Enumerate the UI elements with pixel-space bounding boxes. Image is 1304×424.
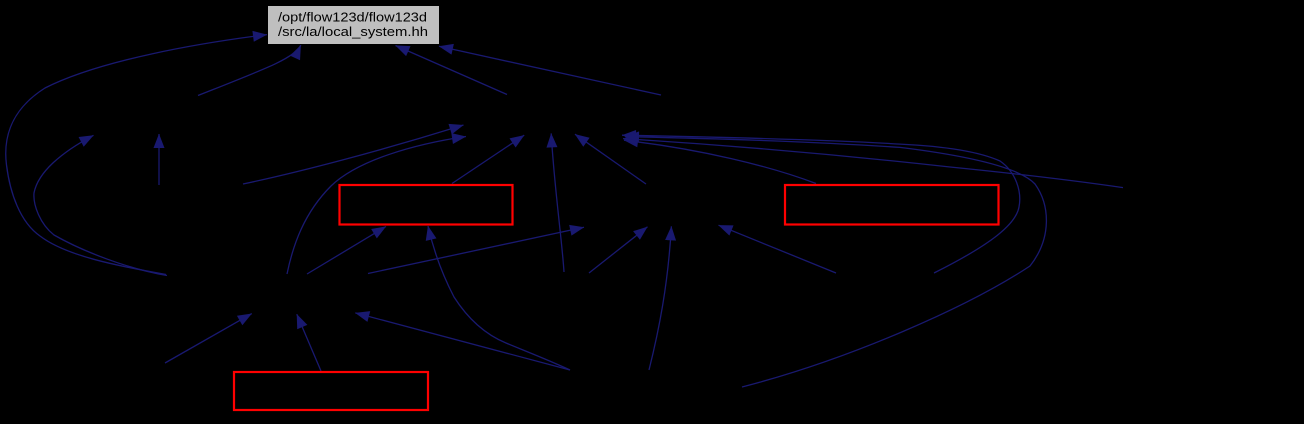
wire edge red1 to B1	[452, 135, 524, 183]
wire edge B1 to A	[396, 46, 508, 95]
node red2 (truncated node, red border)	[785, 185, 999, 225]
wire edge G to A	[198, 45, 301, 95]
wire edge E to red1	[428, 226, 570, 370]
wire edge red3 to D	[297, 314, 321, 371]
wire edge D to red1	[307, 227, 386, 275]
wire edge E to C	[649, 226, 671, 370]
wire edge D2 to B1 (near vertical)	[551, 133, 564, 272]
wire edge D to B1	[287, 137, 466, 275]
node red1 (truncated node, red border)	[340, 185, 513, 225]
wire edge D to G (inner left sweep)	[34, 135, 167, 275]
wire edge E to B1 (giant right arc)	[625, 137, 1046, 387]
wire edge J to D	[165, 314, 252, 363]
wire edge E to D	[355, 313, 570, 370]
wire edge D2 to C	[589, 227, 648, 273]
wire edge D to A (big left sweep)	[6, 35, 267, 275]
wire edge F to B1	[623, 139, 1123, 188]
svg-text:/src/la/local_system.hh: /src/la/local_system.hh	[278, 25, 428, 39]
wire edge red2 to B1	[624, 140, 816, 183]
wire edge D3 to B1 (hook around red2)	[622, 135, 1020, 273]
wire edge D3 to C	[719, 225, 837, 273]
node A root box /opt/flow123d/flow123d/src/la/local_system.hh	[268, 6, 439, 44]
svg-text:/opt/flow123d/flow123d: /opt/flow123d/flow123d	[278, 10, 427, 24]
wire edge H to G (vertical)	[158, 134, 160, 185]
wire edge C to B1	[575, 134, 646, 184]
node red3 (truncated node, red border)	[234, 372, 428, 410]
wire edge H to B1	[243, 125, 464, 184]
wire edge D to C	[368, 227, 584, 273]
wire edge B2 to A	[439, 46, 661, 95]
